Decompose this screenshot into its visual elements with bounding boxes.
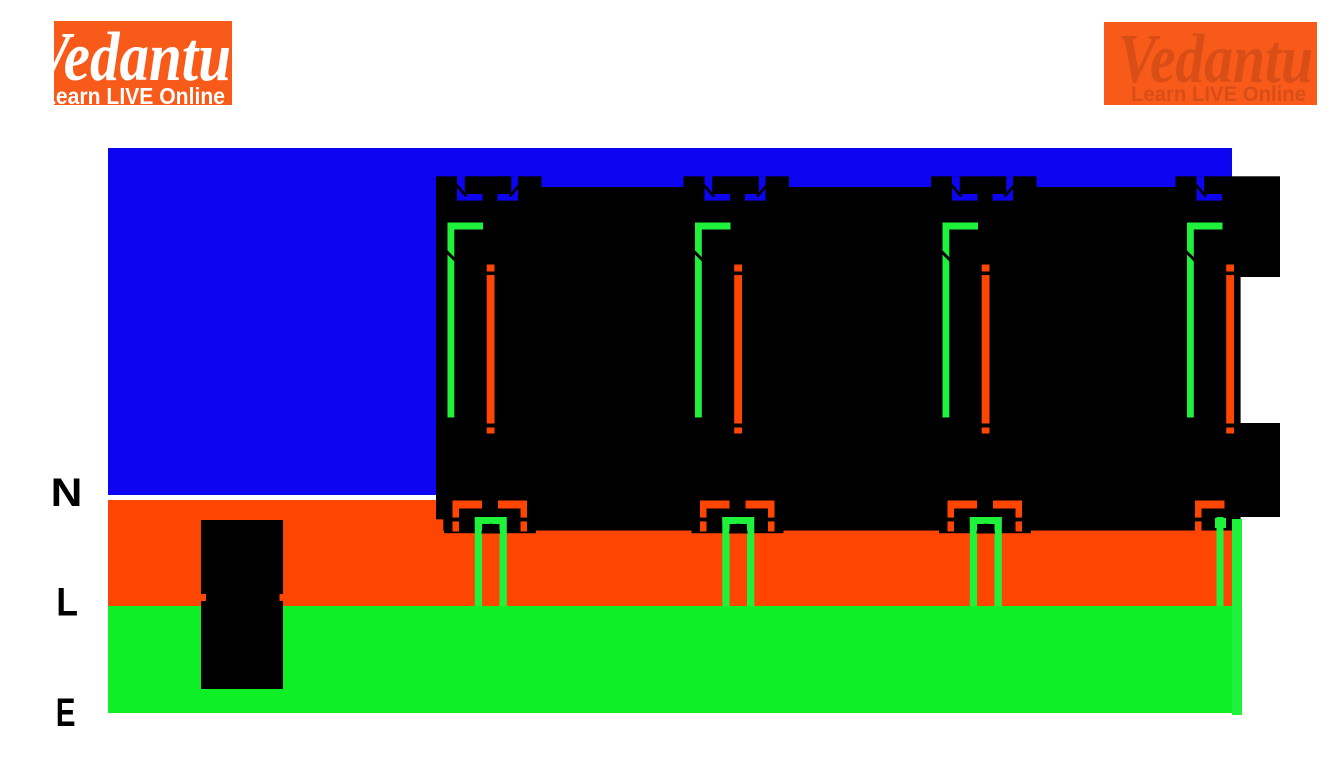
svg-text:Learn LIVE Online: Learn LIVE Online (1131, 83, 1306, 106)
svg-text:Learn LIVE Online: Learn LIVE Online (43, 83, 225, 109)
svg-text:L: L (56, 581, 78, 625)
svg-text:N: N (51, 470, 83, 515)
svg-text:E: E (56, 691, 76, 735)
